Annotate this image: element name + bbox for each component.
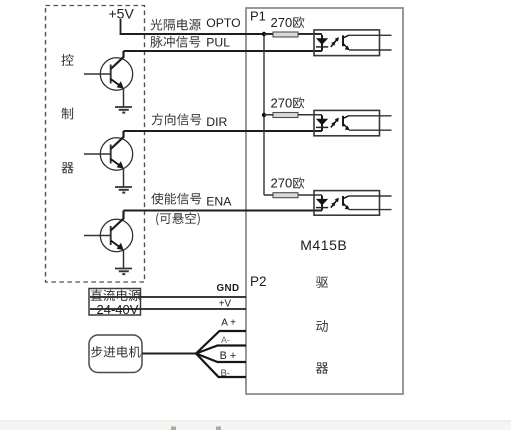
svg-text:270: 270 [271,95,293,110]
svg-text:270: 270 [271,15,293,30]
svg-text:270: 270 [271,176,293,191]
svg-text:A +: A + [221,318,236,329]
svg-text:A-: A- [221,335,230,345]
svg-text:B +: B + [220,350,237,362]
svg-text:24-40V: 24-40V [97,302,139,317]
svg-text:P2: P2 [250,274,267,289]
svg-text:DIR: DIR [206,115,227,129]
svg-text:ENA: ENA [206,195,232,209]
svg-text:M415B: M415B [300,237,347,253]
svg-text:OPTO: OPTO [206,16,240,30]
svg-text:PUL: PUL [206,35,230,49]
svg-text:B-: B- [221,368,231,379]
svg-text:GND: GND [217,283,240,294]
svg-text:+5V: +5V [109,5,135,21]
svg-text:P1: P1 [250,9,266,24]
svg-text:+V: +V [219,299,232,310]
